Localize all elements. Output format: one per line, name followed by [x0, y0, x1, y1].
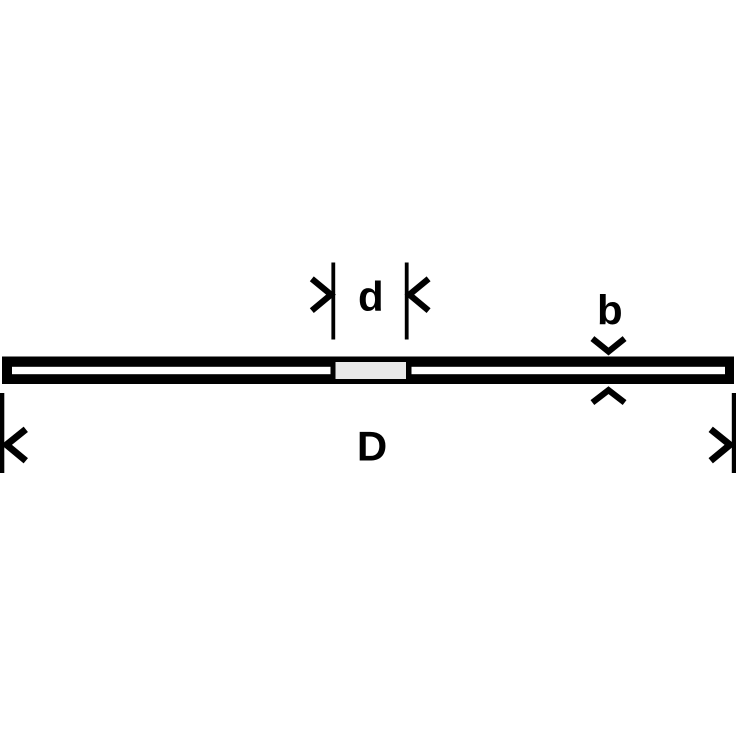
dimension b: top arrow (points down)	[592, 339, 624, 352]
disc body (side view bar)	[2, 357, 734, 385]
dimension D: right arrow (points right)	[711, 429, 730, 461]
dimension d: right extension line	[405, 263, 409, 340]
dimension b: bottom arrow (points up)	[592, 390, 624, 402]
disc inner white slot left	[12, 367, 331, 374]
dimension d: left extension line	[331, 263, 335, 340]
svg-text:d: d	[358, 273, 384, 320]
dimension D: left extension line	[0, 393, 4, 473]
svg-text:b: b	[597, 287, 623, 334]
dimension D: right extension line	[732, 393, 736, 473]
disc inner white slot right	[412, 367, 726, 374]
dimension d: left arrow (points right)	[312, 279, 331, 311]
dimension D: left arrow (points left)	[7, 429, 26, 461]
hub / bore section (grey)	[336, 362, 407, 379]
svg-text:D: D	[357, 423, 387, 470]
dimension d: right arrow (points left)	[409, 279, 428, 311]
